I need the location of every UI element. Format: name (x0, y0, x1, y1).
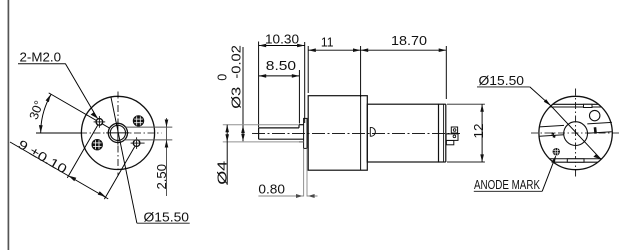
extension line upper (125, 126, 172, 128)
hub cross vertical (117, 121, 119, 144)
shaft hub outer ring (108, 123, 127, 142)
30 deg hole line (49, 93, 112, 129)
rear circle (539, 96, 612, 169)
diagonal arrow upper-left (544, 99, 551, 106)
top flat chord outer (553, 103, 599, 105)
dimension 18.70 (361, 34, 447, 99)
dimension 8.50 (259, 59, 300, 124)
svg-text:10.30: 10.30 (265, 33, 299, 47)
svg-text:Ø4: Ø4 (216, 161, 230, 185)
top slot (584, 104, 593, 107)
svg-text:Ø15.50: Ø15.50 (144, 210, 190, 225)
label 2-M2.0 with leader (18, 51, 97, 119)
bottom flat chord inner (550, 158, 602, 160)
hatched hole upper-right (133, 115, 144, 126)
shaft hub inner circle (110, 125, 125, 140)
extension line lower (124, 139, 172, 141)
brush end cap (439, 104, 446, 162)
svg-text:0.80: 0.80 (258, 183, 285, 197)
brush tab left (551, 132, 554, 135)
dimension 10.30 (259, 33, 305, 128)
M2 hole 1 (upper-left) (94, 116, 106, 128)
angle extension line (horizontal) (36, 132, 81, 134)
anode mark dot (553, 148, 560, 155)
vertical centerline (117, 92, 119, 177)
dimension diameter 4 (216, 125, 304, 185)
svg-text:Ø15.50: Ø15.50 (479, 73, 525, 88)
shaft (259, 128, 304, 139)
svg-text:Ø3: Ø3 (230, 87, 244, 109)
motor face outer circle (81, 96, 154, 169)
gearbox body (308, 96, 367, 171)
bottom flat chord outer (553, 161, 598, 163)
brush card band (539, 122, 612, 136)
extension line from hole1 (67, 125, 97, 177)
terminal lower block (446, 141, 453, 145)
dimension 9 +-0.10 (10, 125, 135, 199)
label diameter 15.50 right (477, 73, 551, 106)
dimension line (10, 142, 108, 199)
terminal main tab (446, 134, 458, 141)
svg-text:2-M2.0: 2-M2.0 (20, 51, 62, 65)
bottom slot (567, 159, 584, 162)
dimension line vertical (166, 118, 168, 196)
frame border left edge (7, 0, 9, 250)
vent hole (590, 110, 600, 120)
arc arrow top (46, 94, 51, 102)
extension line from hole2 (104, 147, 134, 200)
dimension diameter 3 tolerance (216, 45, 245, 141)
svg-text:8.50: 8.50 (266, 59, 296, 73)
right view vertical centerline (575, 89, 577, 179)
middle centerline (252, 132, 460, 134)
dimension 11 (308, 36, 360, 98)
center bearing circle (564, 122, 588, 146)
svg-text:18.70: 18.70 (391, 34, 427, 48)
motor body (367, 104, 438, 162)
hub cross horizontal (106, 132, 129, 134)
brush tab right (594, 127, 597, 134)
svg-text:ANODE MARK: ANODE MARK (474, 178, 541, 192)
svg-text:2.50: 2.50 (155, 164, 169, 190)
svg-text:0: 0 (216, 74, 230, 81)
svg-text:12: 12 (472, 123, 486, 138)
svg-text:11: 11 (321, 36, 334, 50)
label diameter 15.50 with leader (111, 97, 190, 225)
motor shaft D detail (370, 127, 375, 136)
dimension 0.80 (258, 148, 317, 197)
arrow at hole1 extension (68, 176, 76, 182)
arrow pointing down at upper line (165, 120, 169, 128)
dimension 2.50 (124, 118, 172, 196)
horizontal centerline (80, 132, 162, 134)
dimension 12 (447, 104, 486, 162)
angular dimension arc 30deg (41, 94, 51, 132)
arrow pointing up at lower line (165, 140, 169, 148)
terminal upper tab (451, 127, 457, 133)
svg-text:-0.02: -0.02 (230, 45, 244, 79)
arrow at hole2 extension (98, 191, 106, 197)
arc arrow bottom (39, 125, 43, 133)
label ANODE MARK with leader (474, 156, 556, 192)
M2 hole 2 (lower-right) (131, 137, 145, 149)
right view horizontal centerline (531, 132, 621, 134)
hatched hole lower-left (92, 139, 103, 150)
diagonal arrow lower-right (593, 154, 601, 159)
gearbox motor interface line (360, 96, 362, 171)
diameter diagonal line (551, 106, 601, 159)
front flange plate 0.80 (304, 118, 307, 148)
top flat chord inner (550, 106, 602, 108)
bearing boss diameter 4 (299, 125, 304, 142)
